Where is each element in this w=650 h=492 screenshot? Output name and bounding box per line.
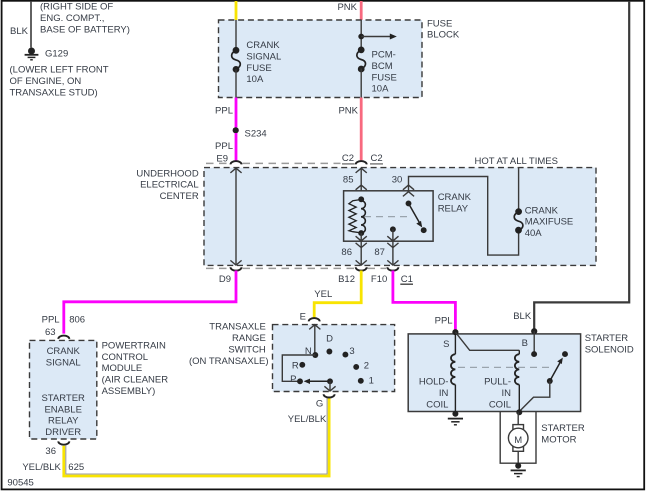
svg-text:C2: C2 bbox=[371, 153, 383, 164]
node P contact bbox=[297, 378, 303, 384]
fuse PCM-BCM FUSE 10A bbox=[357, 47, 366, 72]
wire YEL/BLK 625 PCM pin 36 to range switch G bbox=[64, 398, 329, 476]
wire PPL S234 to E9 bbox=[235, 133, 238, 161]
svg-text:HOLD-: HOLD- bbox=[419, 377, 449, 388]
svg-text:ASSEMBLY): ASSEMBLY) bbox=[102, 386, 156, 397]
svg-text:RELAY: RELAY bbox=[48, 416, 79, 427]
svg-text:ENG. COMPT.,: ENG. COMPT., bbox=[40, 13, 104, 24]
wire crank signal fuse out bbox=[235, 69, 237, 97]
relay mechanical link dashed bbox=[364, 216, 408, 218]
svg-text:10A: 10A bbox=[372, 84, 390, 95]
svg-text:YEL/BLK: YEL/BLK bbox=[288, 414, 327, 425]
svg-text:PPL: PPL bbox=[435, 315, 453, 326]
svg-text:E: E bbox=[300, 311, 306, 322]
svg-text:DRIVER: DRIVER bbox=[45, 427, 81, 438]
svg-text:PPL: PPL bbox=[42, 314, 60, 325]
svg-text:PNK: PNK bbox=[338, 106, 358, 117]
svg-text:BLOCK: BLOCK bbox=[427, 30, 460, 41]
svg-text:RELAY: RELAY bbox=[438, 203, 469, 214]
connector arc D9 bbox=[231, 267, 242, 270]
svg-text:PULL-: PULL- bbox=[484, 377, 511, 388]
svg-text:YEL: YEL bbox=[314, 289, 332, 300]
node N contact bbox=[312, 352, 318, 358]
svg-text:OF ENGINE, ON: OF ENGINE, ON bbox=[10, 76, 82, 87]
connector arc C2 bbox=[356, 161, 367, 164]
node relay arm pivot bbox=[421, 227, 427, 233]
svg-text:2: 2 bbox=[364, 360, 369, 371]
solenoid switch arm bbox=[550, 362, 561, 381]
svg-text:40A: 40A bbox=[525, 228, 543, 239]
svg-text:CONTROL: CONTROL bbox=[102, 352, 148, 363]
powertrain control module box bbox=[30, 340, 97, 439]
svg-text:STARTER: STARTER bbox=[41, 393, 85, 404]
svg-text:806: 806 bbox=[69, 314, 85, 325]
svg-text:F10: F10 bbox=[371, 274, 387, 285]
starter motor M bbox=[508, 428, 528, 448]
svg-text:87: 87 bbox=[374, 247, 385, 258]
relay switch contact 30 bbox=[406, 200, 412, 206]
solenoid mechanical link dashed bbox=[458, 366, 551, 368]
starter solenoid box bbox=[408, 334, 580, 412]
wire N to P inside switch bbox=[282, 355, 315, 381]
svg-text:625: 625 bbox=[68, 462, 84, 473]
wire motor junction to motor bbox=[517, 412, 519, 425]
svg-text:D9: D9 bbox=[219, 274, 231, 285]
svg-text:(ON TRANSAXLE): (ON TRANSAXLE) bbox=[189, 356, 269, 367]
svg-text:FUSE: FUSE bbox=[372, 72, 397, 83]
wire arm pivot to motor junction bbox=[519, 381, 550, 412]
svg-text:CRANK: CRANK bbox=[438, 192, 472, 203]
connector arc E bbox=[309, 318, 320, 321]
svg-text:CRANK: CRANK bbox=[47, 346, 81, 357]
svg-text:MOTOR: MOTOR bbox=[541, 434, 576, 445]
fuse block box bbox=[219, 20, 423, 98]
wire YEL ignition feed to fuse block bbox=[235, 1, 238, 20]
svg-text:36: 36 bbox=[45, 446, 56, 457]
node 1 contact bbox=[358, 378, 364, 384]
wire PPL F10 to solenoid S bbox=[393, 271, 456, 331]
wire YEL B12 to range switch E bbox=[314, 271, 361, 318]
ground hold-in coil bbox=[448, 419, 463, 425]
svg-text:RANGE: RANGE bbox=[232, 333, 266, 344]
svg-text:IN: IN bbox=[439, 388, 449, 399]
svg-text:(AIR CLEANER: (AIR CLEANER bbox=[102, 375, 169, 386]
node B terminal bbox=[531, 328, 537, 334]
svg-text:(RIGHT SIDE OF: (RIGHT SIDE OF bbox=[40, 2, 113, 13]
svg-text:G: G bbox=[316, 398, 323, 409]
node solenoid arm pivot bbox=[547, 378, 553, 384]
connector arc PCM pin 36 bbox=[58, 441, 69, 444]
svg-text:3: 3 bbox=[349, 346, 354, 357]
wire pcm-bcm fuse out bbox=[360, 69, 362, 98]
svg-text:B12: B12 bbox=[338, 274, 355, 285]
wire pcm-bcm fuse feed bbox=[360, 20, 362, 50]
wire E9 to D9 pass-through bbox=[230, 168, 241, 265]
wire relay pin 86 to B12 bbox=[356, 233, 367, 265]
wire BLK battery ground bbox=[30, 1, 32, 48]
node R contact bbox=[299, 362, 305, 368]
svg-text:ELECTRICAL: ELECTRICAL bbox=[140, 180, 199, 191]
motor brush top bbox=[513, 425, 524, 430]
hold-in coil bbox=[451, 332, 455, 412]
svg-text:UNDERHOOD: UNDERHOOD bbox=[136, 168, 198, 179]
svg-text:CRANK: CRANK bbox=[246, 40, 280, 51]
wire S to pull-in coil bbox=[455, 332, 519, 350]
wire PNK fuse to C2 bbox=[360, 98, 363, 161]
svg-text:PPL: PPL bbox=[215, 106, 233, 117]
svg-text:CENTER: CENTER bbox=[160, 191, 199, 202]
svg-text:BCM: BCM bbox=[372, 61, 393, 72]
svg-text:FUSE: FUSE bbox=[246, 63, 271, 74]
wire B to solenoid contact bbox=[533, 331, 535, 354]
svg-text:S: S bbox=[443, 339, 449, 350]
svg-text:MAXIFUSE: MAXIFUSE bbox=[525, 217, 574, 228]
node relay coil bottom bbox=[358, 230, 364, 236]
svg-text:(LOWER LEFT FRONT: (LOWER LEFT FRONT bbox=[10, 65, 109, 76]
svg-text:TRANSAXLE: TRANSAXLE bbox=[209, 322, 266, 333]
svg-text:86: 86 bbox=[341, 247, 352, 258]
svg-text:S234: S234 bbox=[245, 129, 267, 140]
node motor junction bbox=[516, 409, 522, 415]
svg-text:MODULE: MODULE bbox=[102, 363, 143, 374]
connector arc F10 bbox=[387, 267, 398, 270]
relay coil (resistor zigzag + coil) bbox=[349, 200, 366, 234]
wire relay pin 87 to F10 bbox=[387, 229, 398, 265]
svg-text:10A: 10A bbox=[246, 74, 264, 85]
svg-text:C1: C1 bbox=[401, 274, 413, 285]
svg-text:SIGNAL: SIGNAL bbox=[246, 51, 281, 62]
wire relay pin 30 to maxifuse bbox=[409, 177, 519, 256]
node solenoid contact B bbox=[531, 351, 537, 357]
wire battery feed to maxifuse bbox=[518, 167, 520, 212]
ground starter motor bbox=[511, 470, 526, 476]
svg-text:COIL: COIL bbox=[426, 400, 448, 411]
transaxle range switch box bbox=[273, 325, 395, 392]
pull-in coil bbox=[515, 350, 519, 412]
svg-text:D: D bbox=[326, 334, 333, 345]
node G junction bbox=[327, 378, 333, 384]
wire YEL/BLK black tracer stripe bbox=[66, 398, 327, 474]
wire PPL 806 D9 to PCM pin 63 bbox=[64, 271, 236, 334]
svg-text:R: R bbox=[292, 360, 299, 371]
wire PNK feed to fuse block bbox=[360, 1, 363, 20]
connector C2 dashed line top bbox=[206, 162, 230, 164]
svg-text:SWITCH: SWITCH bbox=[228, 344, 266, 355]
svg-text:M: M bbox=[514, 435, 522, 446]
node hold-in coil ground bbox=[452, 411, 458, 417]
connector C2 dashed line bottom / C1 bbox=[206, 267, 230, 269]
svg-text:PCM-: PCM- bbox=[372, 50, 396, 61]
wire fuse block branch arrow bbox=[361, 36, 391, 38]
svg-text:IN: IN bbox=[502, 388, 512, 399]
relay contact 87 bbox=[390, 226, 396, 232]
svg-text:30: 30 bbox=[392, 175, 403, 186]
svg-text:ENABLE: ENABLE bbox=[44, 404, 82, 415]
svg-text:PPL: PPL bbox=[215, 141, 233, 152]
wire G junction to G terminal bbox=[324, 381, 335, 391]
wire PPL fuse to S234 bbox=[235, 98, 238, 128]
svg-text:BLK: BLK bbox=[513, 311, 532, 322]
motor brush bottom bbox=[513, 447, 524, 452]
range switch arm pointing to P bbox=[309, 380, 330, 382]
wire C2 to relay pin 85 bbox=[356, 168, 367, 199]
fuse CRANK MAXIFUSE 40A bbox=[514, 209, 523, 233]
svg-text:90545: 90545 bbox=[7, 477, 33, 488]
svg-text:C2: C2 bbox=[342, 153, 354, 164]
fuse CRANK SIGNAL FUSE 10A bbox=[232, 47, 241, 72]
wire BLK battery to solenoid B bbox=[534, 1, 629, 330]
svg-text:STARTER: STARTER bbox=[585, 333, 629, 344]
connector arc PCM pin 63 bbox=[58, 336, 69, 339]
wire motor to ground bbox=[517, 451, 519, 464]
svg-text:HOT AT ALL TIMES: HOT AT ALL TIMES bbox=[475, 156, 558, 167]
svg-text:FUSE: FUSE bbox=[427, 18, 452, 29]
svg-text:COIL: COIL bbox=[489, 400, 511, 411]
wire starter motor loop bbox=[500, 412, 536, 464]
node solenoid contact motor side bbox=[562, 351, 568, 357]
svg-text:CRANK: CRANK bbox=[525, 205, 559, 216]
relay switch arm bbox=[409, 203, 420, 222]
node 2 contact bbox=[353, 364, 359, 370]
svg-text:B: B bbox=[522, 338, 528, 349]
svg-text:G129: G129 bbox=[45, 49, 68, 60]
node relay coil top bbox=[358, 196, 364, 202]
underhood electrical center box bbox=[204, 168, 596, 266]
ground G129 bbox=[25, 48, 39, 60]
node D contact bbox=[326, 349, 332, 355]
node 3 contact bbox=[342, 352, 348, 358]
svg-text:PNK: PNK bbox=[337, 2, 357, 13]
svg-text:63: 63 bbox=[45, 327, 56, 338]
svg-text:YEL/BLK: YEL/BLK bbox=[22, 462, 61, 473]
svg-text:BASE OF BATTERY): BASE OF BATTERY) bbox=[40, 24, 130, 35]
node fuse block junction bbox=[358, 34, 364, 40]
svg-text:SOLENOID: SOLENOID bbox=[585, 344, 634, 355]
svg-text:1: 1 bbox=[369, 375, 374, 386]
svg-text:TRANSAXLE STUD): TRANSAXLE STUD) bbox=[10, 87, 98, 98]
crank relay box bbox=[344, 191, 434, 241]
wire E to N contact bbox=[309, 325, 320, 355]
node S terminal bbox=[452, 329, 458, 335]
connector arc B12 bbox=[356, 267, 367, 270]
svg-text:85: 85 bbox=[343, 175, 354, 186]
svg-text:BLK: BLK bbox=[10, 26, 29, 37]
svg-text:SIGNAL: SIGNAL bbox=[46, 358, 81, 369]
connector arc G bbox=[324, 394, 335, 397]
wire crank signal fuse feed bbox=[235, 20, 237, 50]
node motor ground bbox=[515, 463, 521, 469]
svg-text:STARTER: STARTER bbox=[541, 423, 585, 434]
svg-text:POWERTRAIN: POWERTRAIN bbox=[102, 340, 166, 351]
svg-text:P: P bbox=[290, 374, 296, 385]
splice S234 bbox=[233, 127, 239, 133]
connector arc E9 bbox=[231, 161, 242, 164]
